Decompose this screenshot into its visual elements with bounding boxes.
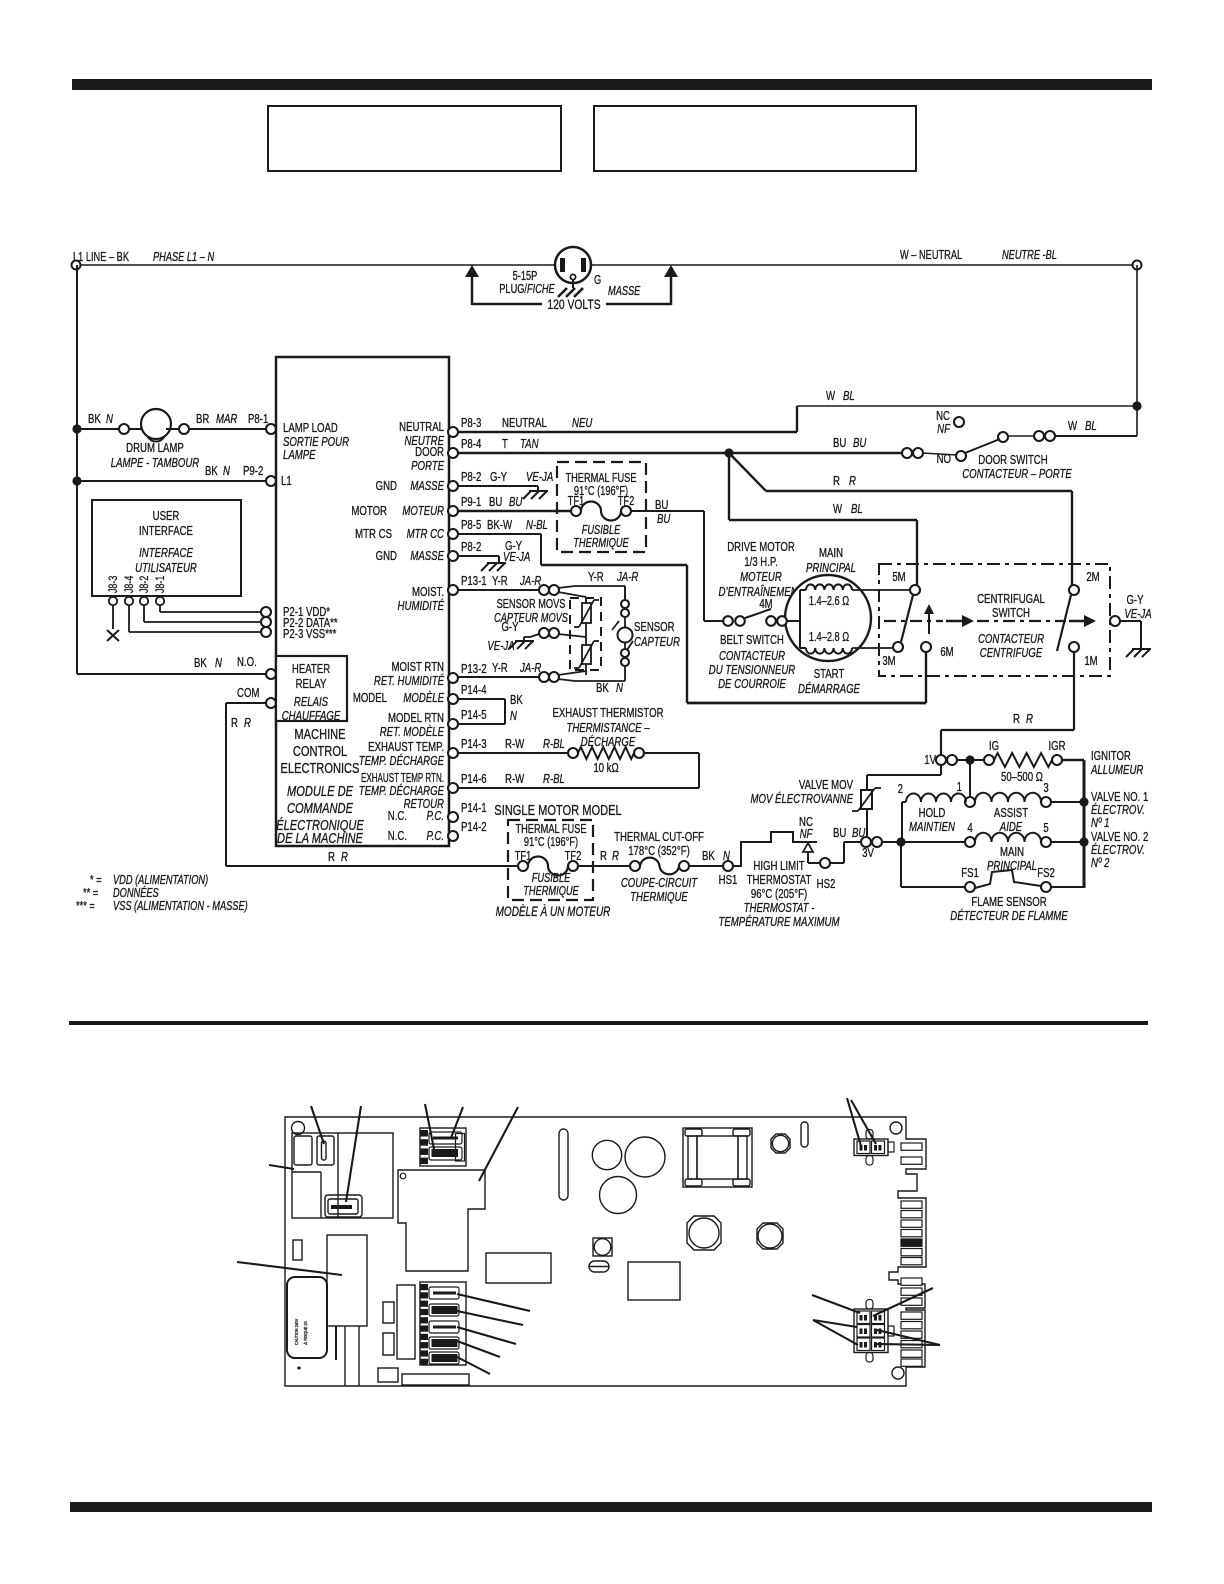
svg-text:W – NEUTRAL: W – NEUTRAL — [900, 249, 962, 263]
svg-text:RET. HUMIDITÉ: RET. HUMIDITÉ — [374, 674, 444, 689]
svg-text:5: 5 — [1043, 822, 1048, 836]
svg-text:MODÈLE À UN MOTEUR: MODÈLE À UN MOTEUR — [496, 902, 611, 919]
svg-text:R: R — [1026, 713, 1033, 727]
svg-text:MAINTIEN: MAINTIEN — [909, 821, 956, 835]
svg-text:MODULE DE: MODULE DE — [287, 782, 353, 799]
svg-text:120 VOLTS: 120 VOLTS — [547, 296, 600, 312]
svg-text:BR: BR — [196, 413, 209, 427]
svg-text:1V: 1V — [924, 754, 936, 768]
svg-text:P14-6: P14-6 — [461, 773, 487, 787]
svg-text:CENTRIFUGAL: CENTRIFUGAL — [977, 593, 1045, 607]
svg-text:RELAIS: RELAIS — [294, 696, 328, 710]
svg-text:MOIST.: MOIST. — [412, 586, 444, 600]
svg-text:R-W: R-W — [505, 738, 524, 752]
svg-text:MTR CC: MTR CC — [407, 528, 445, 542]
svg-text:178°C (352°F): 178°C (352°F) — [628, 845, 690, 859]
svg-text:EXHAUST TEMP RTN.: EXHAUST TEMP RTN. — [361, 771, 444, 785]
svg-text:DRUM LAMP: DRUM LAMP — [126, 442, 184, 456]
svg-text:DOOR: DOOR — [415, 446, 444, 460]
svg-text:R: R — [244, 717, 251, 731]
svg-text:ÉLECTROV.: ÉLECTROV. — [1091, 843, 1145, 858]
svg-text:BU: BU — [853, 437, 867, 451]
svg-text:BU: BU — [655, 499, 668, 513]
svg-text:SORTIE POUR: SORTIE POUR — [283, 436, 349, 450]
svg-text:NEUTRAL: NEUTRAL — [399, 421, 444, 435]
svg-text:N: N — [215, 657, 223, 671]
svg-text:N: N — [510, 710, 518, 724]
svg-text:R: R — [328, 851, 335, 865]
svg-text:THERMISTANCE –: THERMISTANCE – — [566, 722, 650, 736]
svg-text:VDD (ALIMENTATION): VDD (ALIMENTATION) — [113, 874, 208, 888]
svg-text:JA-R: JA-R — [519, 662, 541, 676]
svg-text:W: W — [1068, 420, 1077, 434]
svg-text:TEMPÉRATURE MAXIMUM: TEMPÉRATURE MAXIMUM — [718, 915, 839, 930]
svg-text:SWITCH: SWITCH — [992, 607, 1030, 621]
svg-text:R: R — [341, 851, 348, 865]
svg-text:MASSE: MASSE — [608, 285, 641, 299]
svg-text:HEATER: HEATER — [292, 663, 330, 677]
svg-text:BU: BU — [657, 513, 671, 527]
svg-text:THERMAL CUT-OFF: THERMAL CUT-OFF — [614, 831, 704, 845]
svg-text:N: N — [106, 413, 114, 427]
svg-text:G: G — [594, 274, 601, 288]
svg-text:START: START — [814, 668, 845, 682]
svg-text:DONNÉES: DONNÉES — [113, 886, 159, 901]
svg-text:BELT SWITCH: BELT SWITCH — [720, 634, 784, 648]
svg-text:P14-1: P14-1 — [461, 802, 487, 816]
svg-text:91°C (196°F): 91°C (196°F) — [524, 836, 578, 850]
svg-text:6M: 6M — [940, 646, 953, 660]
svg-text:P8-5: P8-5 — [461, 519, 481, 533]
svg-text:DÉMARRAGE: DÉMARRAGE — [798, 682, 860, 697]
svg-text:P2-3 VSS***: P2-3 VSS*** — [283, 628, 337, 642]
svg-text:CONTACTEUR: CONTACTEUR — [978, 633, 1044, 647]
svg-text:FUSIBLE: FUSIBLE — [582, 524, 621, 538]
svg-text:CAUTION 240V: CAUTION 240V — [293, 1319, 299, 1345]
svg-text:MTR CS: MTR CS — [355, 528, 392, 542]
svg-text:NEU: NEU — [572, 417, 593, 431]
svg-text:L1: L1 — [281, 475, 292, 489]
svg-text:DE LA MACHINE: DE LA MACHINE — [277, 829, 363, 846]
svg-text:J8-1: J8-1 — [154, 576, 168, 593]
svg-text:HS1: HS1 — [719, 874, 738, 888]
svg-text:BK: BK — [194, 657, 207, 671]
svg-text:JA-R: JA-R — [616, 571, 638, 585]
svg-text:JA-R: JA-R — [519, 575, 541, 589]
svg-text:PORTE: PORTE — [411, 460, 444, 474]
svg-text:ELECTRONICS: ELECTRONICS — [281, 759, 360, 776]
svg-text:N: N — [616, 682, 624, 696]
svg-text:Y-R: Y-R — [588, 571, 604, 585]
svg-text:COMMANDE: COMMANDE — [287, 799, 353, 816]
svg-text:CHAUFFAGE: CHAUFFAGE — [282, 710, 341, 724]
svg-text:P14-4: P14-4 — [461, 684, 487, 698]
svg-text:VE-JA: VE-JA — [487, 640, 514, 654]
svg-text:LAMP LOAD: LAMP LOAD — [283, 422, 338, 436]
svg-text:ÉLECTROV.: ÉLECTROV. — [1091, 803, 1145, 818]
svg-text:4: 4 — [967, 822, 973, 836]
svg-text:R-BL: R-BL — [543, 773, 565, 787]
svg-text:NF: NF — [937, 423, 951, 437]
svg-text:1M: 1M — [1084, 655, 1097, 669]
svg-text:HOLD: HOLD — [919, 807, 946, 821]
svg-text:MOV ÉLECTROVANNE: MOV ÉLECTROVANNE — [750, 792, 853, 807]
svg-text:50–500 Ω: 50–500 Ω — [1001, 771, 1043, 785]
svg-text:SENSOR: SENSOR — [634, 621, 675, 635]
svg-text:R-W: R-W — [505, 773, 524, 787]
svg-text:N-BL: N-BL — [526, 519, 548, 533]
svg-text:USER: USER — [153, 510, 180, 524]
svg-text:P.C.: P.C. — [427, 810, 444, 824]
svg-text:MAIN: MAIN — [1000, 846, 1024, 860]
svg-text:R: R — [600, 850, 607, 864]
svg-text:GND: GND — [376, 480, 397, 494]
svg-text:P.C.: P.C. — [427, 830, 444, 844]
svg-text:G-Y: G-Y — [1126, 594, 1143, 608]
svg-text:10 kΩ: 10 kΩ — [593, 762, 619, 776]
svg-text:VALVE MOV: VALVE MOV — [799, 779, 853, 793]
svg-text:P8-1: P8-1 — [248, 413, 268, 427]
svg-text:CAPTEUR: CAPTEUR — [634, 636, 680, 650]
svg-text:THERMOSTAT: THERMOSTAT — [747, 874, 812, 888]
svg-text:VALVE NO. 1: VALVE NO. 1 — [1091, 791, 1148, 805]
svg-text:R: R — [612, 850, 619, 864]
svg-text:IGR: IGR — [1048, 740, 1065, 754]
svg-text:BK: BK — [205, 465, 218, 479]
svg-text:W: W — [826, 390, 835, 404]
svg-text:*** =: *** = — [76, 900, 95, 914]
svg-text:PRINCIPAL: PRINCIPAL — [806, 562, 856, 576]
svg-text:MOTEUR: MOTEUR — [740, 571, 782, 585]
svg-text:5M: 5M — [892, 571, 905, 585]
svg-text:** =: ** = — [83, 887, 98, 901]
svg-text:INTERFACE: INTERFACE — [139, 525, 193, 539]
svg-text:DÉTECTEUR DE FLAMME: DÉTECTEUR DE FLAMME — [950, 909, 1068, 924]
svg-text:5-15P: 5-15P — [513, 270, 538, 284]
svg-text:LAMPE: LAMPE — [283, 449, 316, 463]
svg-text:TEMP. DÉCHARGE: TEMP. DÉCHARGE — [359, 784, 445, 799]
svg-text:NC: NC — [936, 410, 950, 424]
svg-text:1.4–2.6 Ω: 1.4–2.6 Ω — [809, 595, 849, 609]
svg-text:THERMAL FUSE: THERMAL FUSE — [515, 823, 586, 837]
svg-text:P14-2: P14-2 — [461, 821, 487, 835]
svg-text:L1 LINE – BK: L1 LINE – BK — [73, 251, 130, 265]
svg-text:FLAME SENSOR: FLAME SENSOR — [971, 896, 1046, 910]
svg-text:P8-2: P8-2 — [461, 541, 481, 555]
svg-text:BK-W: BK-W — [487, 519, 512, 533]
svg-text:MODÈLE: MODÈLE — [403, 691, 444, 706]
svg-text:FICHE: FICHE — [527, 283, 555, 297]
svg-text:DRIVE MOTOR: DRIVE MOTOR — [727, 541, 795, 555]
svg-text:THERMIQUE: THERMIQUE — [573, 537, 629, 551]
svg-text:P8-4: P8-4 — [461, 438, 482, 452]
svg-text:EXHAUST THERMISTOR: EXHAUST THERMISTOR — [552, 707, 663, 721]
svg-text:BU: BU — [833, 437, 846, 451]
svg-text:3M: 3M — [882, 655, 895, 669]
svg-text:N.O.: N.O. — [237, 656, 257, 670]
svg-text:NO: NO — [937, 453, 952, 467]
svg-text:SENSOR MOVS: SENSOR MOVS — [497, 598, 566, 612]
svg-text:DU TENSIONNEUR: DU TENSIONNEUR — [709, 664, 795, 678]
svg-text:VALVE NO. 2: VALVE NO. 2 — [1091, 831, 1148, 845]
svg-text:P13-1: P13-1 — [461, 575, 487, 589]
svg-text:UTILISATEUR: UTILISATEUR — [135, 562, 197, 576]
svg-text:THERMAL FUSE: THERMAL FUSE — [565, 472, 636, 486]
svg-text:BU: BU — [509, 496, 523, 510]
svg-text:R: R — [231, 717, 238, 731]
svg-text:⚠ RISQUE 2A: ⚠ RISQUE 2A — [302, 1321, 308, 1345]
svg-text:EXHAUST TEMP.: EXHAUST TEMP. — [368, 741, 444, 755]
svg-text:1.4–2.8 Ω: 1.4–2.8 Ω — [809, 631, 849, 645]
svg-text:P9-1: P9-1 — [461, 496, 481, 510]
svg-text:P14-5: P14-5 — [461, 709, 487, 723]
svg-text:MAIN: MAIN — [819, 547, 843, 561]
svg-text:HS2: HS2 — [817, 878, 836, 892]
svg-text:ALLUMEUR: ALLUMEUR — [1090, 764, 1143, 778]
svg-text:* =: * = — [90, 874, 102, 888]
svg-text:BK: BK — [88, 413, 101, 427]
svg-text:N.C.: N.C. — [388, 830, 407, 844]
svg-text:Y-R: Y-R — [492, 662, 508, 676]
svg-text:RELAY: RELAY — [296, 678, 327, 692]
svg-text:BL: BL — [851, 503, 863, 517]
svg-text:BK: BK — [510, 694, 523, 708]
svg-text:G-Y: G-Y — [490, 471, 507, 485]
svg-text:RET. MODÈLE: RET. MODÈLE — [380, 725, 445, 740]
svg-text:BK: BK — [702, 850, 715, 864]
svg-text:PLUG/: PLUG/ — [499, 283, 528, 297]
svg-text:CONTROL: CONTROL — [293, 742, 347, 759]
svg-text:MODEL RTN: MODEL RTN — [388, 712, 444, 726]
svg-text:HUMIDITÉ: HUMIDITÉ — [398, 599, 445, 614]
svg-text:R: R — [1013, 713, 1020, 727]
svg-text:2: 2 — [898, 783, 903, 797]
svg-text:FS2: FS2 — [1037, 867, 1055, 881]
svg-text:J8-3: J8-3 — [107, 576, 121, 593]
svg-text:P13-2: P13-2 — [461, 663, 487, 677]
svg-text:TEMP. DÉCHARGE: TEMP. DÉCHARGE — [359, 754, 445, 769]
svg-text:THERMOSTAT -: THERMOSTAT - — [744, 902, 815, 916]
svg-text:Nº 1: Nº 1 — [1091, 817, 1109, 831]
svg-text:DE COURROIE: DE COURROIE — [718, 678, 786, 692]
svg-text:CONTACTEUR – PORTE: CONTACTEUR – PORTE — [962, 468, 1072, 482]
svg-text:Nº 2: Nº 2 — [1091, 857, 1110, 871]
svg-text:TAN: TAN — [520, 438, 539, 452]
svg-text:MOIST RTN: MOIST RTN — [392, 661, 444, 675]
svg-text:NEUTRAL: NEUTRAL — [502, 417, 547, 431]
svg-text:J8-4: J8-4 — [123, 576, 137, 593]
svg-text:T: T — [502, 438, 508, 452]
svg-text:VE-JA: VE-JA — [503, 551, 530, 565]
svg-text:FS1: FS1 — [961, 867, 979, 881]
svg-text:COUPE-CIRCUIT: COUPE-CIRCUIT — [621, 877, 698, 891]
svg-text:P9-2: P9-2 — [243, 465, 263, 479]
svg-text:TF2: TF2 — [618, 495, 634, 509]
svg-text:4M: 4M — [759, 598, 772, 612]
svg-text:VSS (ALIMENTATION - MASSE): VSS (ALIMENTATION - MASSE) — [113, 900, 248, 914]
svg-text:CENTRIFUGE: CENTRIFUGE — [980, 647, 1043, 661]
svg-text:LAMPE - TAMBOUR: LAMPE - TAMBOUR — [111, 457, 199, 471]
svg-text:BK: BK — [596, 682, 609, 696]
svg-text:3V: 3V — [862, 847, 874, 861]
svg-text:THERMIQUE: THERMIQUE — [523, 885, 579, 899]
svg-text:J8-2: J8-2 — [138, 576, 152, 593]
svg-text:1: 1 — [957, 781, 962, 795]
svg-text:NF: NF — [800, 828, 814, 842]
svg-text:W: W — [833, 503, 842, 517]
svg-text:MASSE: MASSE — [410, 480, 444, 494]
svg-text:R: R — [833, 475, 840, 489]
svg-text:R: R — [849, 475, 856, 489]
svg-text:BL: BL — [1085, 420, 1097, 434]
svg-text:IGNITOR: IGNITOR — [1091, 750, 1131, 764]
svg-text:VE-JA: VE-JA — [1124, 608, 1151, 622]
svg-text:SINGLE MOTOR MODEL: SINGLE MOTOR MODEL — [494, 801, 621, 818]
svg-text:HIGH LIMIT: HIGH LIMIT — [753, 860, 804, 874]
svg-text:NEUTRE -BL: NEUTRE -BL — [1002, 249, 1057, 263]
svg-text:THERMIQUE: THERMIQUE — [630, 891, 688, 905]
svg-text:MASSE: MASSE — [410, 550, 444, 564]
svg-text:PHASE L1 – N: PHASE L1 – N — [153, 251, 214, 265]
svg-text:GND: GND — [376, 550, 397, 564]
svg-text:COM: COM — [237, 687, 259, 701]
svg-text:MODEL: MODEL — [353, 692, 387, 706]
svg-text:MOTOR: MOTOR — [351, 505, 387, 519]
svg-text:IG: IG — [989, 740, 999, 754]
svg-text:Y-R: Y-R — [492, 575, 508, 589]
svg-text:INTERFACE: INTERFACE — [139, 547, 193, 561]
svg-text:N.C.: N.C. — [388, 810, 407, 824]
svg-text:DÉCHARGE: DÉCHARGE — [581, 735, 636, 750]
svg-text:CONTACTEUR: CONTACTEUR — [719, 650, 785, 664]
svg-text:VE-JA: VE-JA — [526, 471, 553, 485]
svg-text:R-BL: R-BL — [543, 738, 565, 752]
svg-text:DOOR SWITCH: DOOR SWITCH — [978, 454, 1047, 468]
svg-text:P8-3: P8-3 — [461, 417, 481, 431]
svg-text:MACHINE: MACHINE — [294, 725, 345, 742]
svg-text:TF1: TF1 — [568, 495, 584, 509]
svg-text:BU: BU — [489, 496, 502, 510]
svg-text:BU: BU — [833, 827, 846, 841]
svg-text:1/3 H.P.: 1/3 H.P. — [744, 556, 777, 570]
svg-text:96°C (205°F): 96°C (205°F) — [751, 888, 807, 902]
svg-text:BL: BL — [843, 390, 855, 404]
svg-text:P8-2: P8-2 — [461, 471, 481, 485]
svg-text:MOTEUR: MOTEUR — [402, 505, 444, 519]
svg-text:MAR: MAR — [216, 413, 237, 427]
svg-text:P14-3: P14-3 — [461, 738, 487, 752]
svg-text:G-Y: G-Y — [501, 621, 518, 635]
svg-text:N: N — [223, 465, 231, 479]
svg-text:2M: 2M — [1086, 571, 1099, 585]
svg-text:ASSIST: ASSIST — [994, 807, 1028, 821]
svg-text:3: 3 — [1043, 782, 1048, 796]
